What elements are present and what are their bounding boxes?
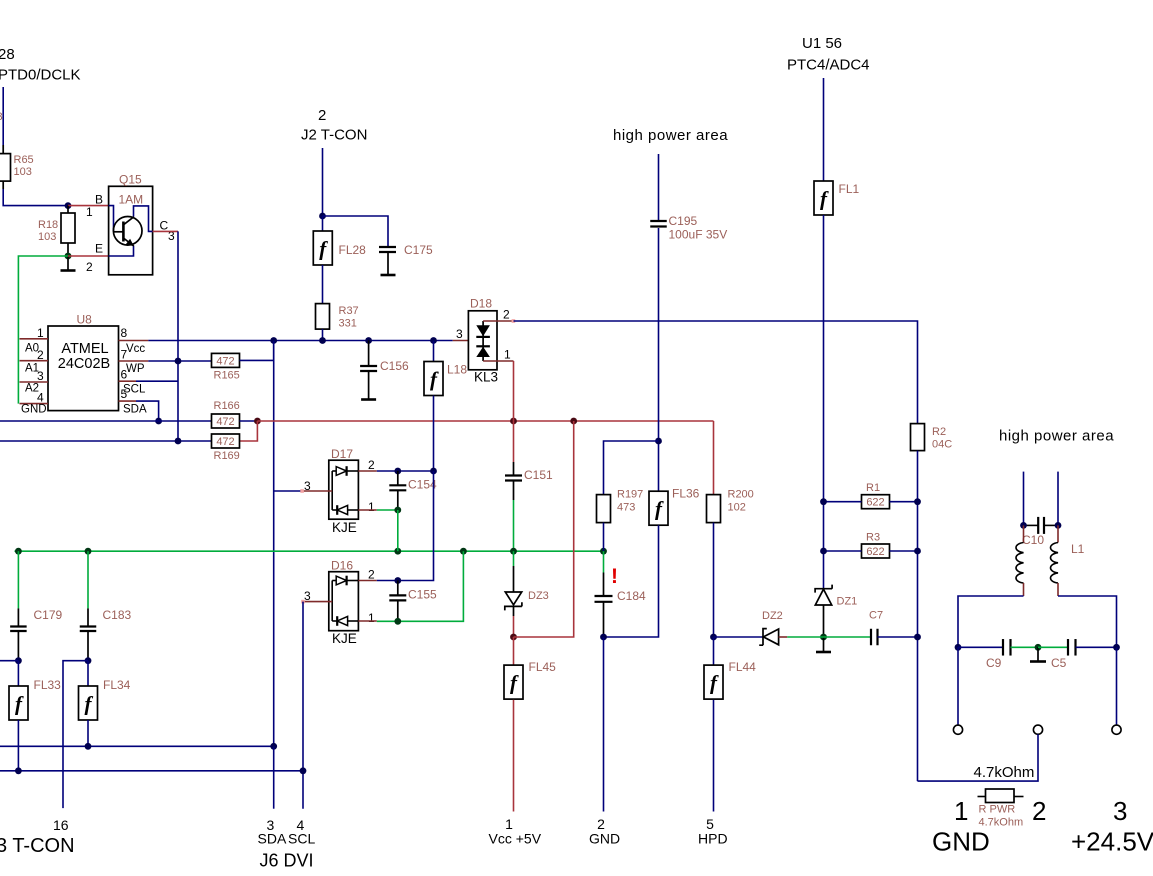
junction node E [65, 253, 72, 260]
wire J2 node to C175 [323, 216, 389, 247]
wire bottom bus lower (to J6 SCL) [0, 770, 303, 772]
wire R200 to HPD node [713, 523, 715, 637]
svg-text:2: 2 [318, 107, 326, 124]
wire FL1 down to R1/R3/DZ1 [823, 215, 825, 589]
svg-text:1: 1 [368, 500, 375, 514]
ground below C175 [387, 252, 389, 275]
wire red link R166-R169 [240, 421, 258, 441]
svg-text:C10: C10 [1022, 533, 1044, 547]
junction R3 left [820, 548, 827, 555]
svg-text:FL45: FL45 [529, 660, 557, 674]
svg-text:GND: GND [589, 831, 620, 847]
lead D18 pin 2 [483, 320, 513, 322]
svg-text:2: 2 [503, 308, 510, 322]
wire R65 to node B [3, 189, 68, 206]
U8 pin 7 WP [119, 360, 149, 362]
wire C5 to right node [1076, 646, 1117, 648]
wire D16 pin2 net riser to D17 net [377, 471, 434, 581]
zener diode DZ3 [513, 551, 515, 566]
wire SDA pin5 elbow [136, 401, 159, 421]
junction red node (Vcc +5V net) [510, 634, 517, 641]
wire C9 to center ground node [1011, 646, 1039, 648]
wire DZ3 to red node [513, 606, 515, 616]
capacitor C5 [1067, 639, 1069, 656]
svg-text:3 T-CON: 3 T-CON [0, 835, 75, 857]
svg-text:R18: R18 [38, 219, 58, 231]
capacitor C7 [870, 629, 872, 646]
junction green bus / C183 [85, 548, 92, 555]
wire R165 to Vcc bus [240, 341, 274, 361]
diode D18 (KL3 dual suppressor) [468, 311, 497, 370]
wire R1 left [824, 501, 862, 503]
wire PTC4 down to FL1 [823, 78, 825, 181]
junction FL34/bus [85, 743, 92, 750]
inductor L1 (right coil) [1057, 525, 1059, 542]
svg-text:103: 103 [38, 231, 56, 243]
svg-text:5: 5 [121, 387, 128, 401]
svg-text:C154: C154 [408, 478, 437, 492]
filter FL28 [322, 216, 324, 231]
svg-text:2: 2 [368, 568, 375, 582]
svg-text:1: 1 [368, 611, 375, 625]
wire green riser to bus [397, 510, 399, 551]
wire right node to terminal 3 [1116, 647, 1118, 725]
wire green E net to U8 address pins [18, 256, 68, 404]
svg-text:7: 7 [121, 348, 128, 362]
svg-text:1: 1 [37, 326, 44, 340]
svg-text:C9: C9 [986, 656, 1002, 670]
capacitor C154 [397, 471, 399, 485]
junction bus/SCL riser [300, 767, 307, 774]
junction C155 top [394, 577, 401, 584]
capacitor C9 [1002, 639, 1004, 656]
junction C10 right [1055, 522, 1062, 529]
junction J2 node [319, 213, 326, 220]
U8 pin 8 Vcc [119, 340, 149, 342]
junction bus/SDA riser [270, 743, 277, 750]
junction DZ1/DZ2/C7 green node [820, 634, 827, 641]
wire L18 down to D17 pin2 net [433, 396, 435, 472]
resistor R169 [212, 434, 240, 448]
filter L18 [433, 341, 435, 362]
svg-text:Vcc: Vcc [126, 343, 145, 355]
wire D16 pin1 green to bus branch [377, 551, 464, 621]
wire to C9 [958, 646, 1003, 648]
svg-text:J2 T-CON: J2 T-CON [301, 127, 367, 144]
svg-text:16: 16 [53, 817, 69, 833]
filter FL44 [713, 637, 715, 665]
junction GND node [600, 634, 607, 641]
svg-text:DZ2: DZ2 [762, 610, 783, 622]
wire R3 right [890, 550, 918, 552]
terminal circle 2 [1033, 725, 1042, 734]
lead D16 pin 2 [358, 580, 376, 582]
svg-text:103: 103 [14, 166, 32, 178]
capacitor C151 [513, 421, 515, 462]
lead D17 pin 1 [358, 509, 376, 511]
svg-text:C195: C195 [669, 214, 698, 228]
filter FL34 [87, 661, 89, 686]
svg-text:GND: GND [932, 827, 990, 857]
junction C156/Vcc [365, 337, 372, 344]
svg-text:2: 2 [37, 348, 44, 362]
svg-text:L1: L1 [1071, 542, 1085, 556]
svg-text:472: 472 [216, 416, 234, 428]
capacitor C195 [658, 154, 660, 221]
svg-text:C155: C155 [408, 588, 437, 602]
junction R3 right [914, 548, 921, 555]
wire R1 right [890, 501, 918, 503]
lead D16 pin 3 [303, 601, 332, 603]
svg-text:C7: C7 [869, 610, 883, 622]
svg-text:R PWR: R PWR [979, 804, 1016, 816]
junction C151 top [510, 418, 517, 425]
wire D17 pin1 green [377, 509, 398, 511]
svg-text:FL28: FL28 [339, 243, 367, 257]
wire Vcc riser elbow to D17 pin3 [274, 490, 302, 492]
svg-text:U1 56: U1 56 [802, 35, 842, 52]
svg-text:E: E [95, 242, 103, 256]
wire C151 bottom to green bus [513, 481, 515, 501]
svg-text:FL36: FL36 [672, 487, 700, 501]
svg-text:2: 2 [368, 458, 375, 472]
svg-text:C151: C151 [524, 468, 553, 482]
junction L18/D16 riser [430, 468, 437, 475]
wire/lead Vcc to D18 pin 3 [453, 340, 483, 342]
wire R166 right [240, 420, 258, 422]
filter FL45 [513, 637, 515, 665]
svg-text:FL34: FL34 [103, 678, 131, 692]
svg-text:1AM: 1AM [119, 193, 144, 207]
wire FL44 to HPD pin [713, 700, 715, 812]
Q15 internal wiring [109, 206, 114, 232]
resistor R165 [212, 353, 240, 367]
junction C9 left node [955, 644, 962, 651]
U8 pin 5 SDA [119, 400, 137, 402]
ground below DZ1 node [823, 637, 825, 652]
svg-text:4.7kOhm: 4.7kOhm [974, 764, 1035, 781]
U8 pin 4 GND [20, 403, 49, 405]
wire R37 to Vcc bus [322, 329, 324, 340]
junction node B [65, 202, 72, 209]
wire branch to R197 [604, 441, 659, 495]
wire R2 down [917, 451, 919, 781]
svg-text:J6 DVI: J6 DVI [260, 851, 314, 871]
svg-text:R3: R3 [866, 532, 880, 544]
svg-text:472: 472 [216, 356, 234, 368]
svg-text:C175: C175 [404, 243, 433, 257]
junction green bus / C151 DZ3 [510, 548, 517, 555]
capacitor C179 [17, 551, 19, 608]
wire D18 pin2 to R2 [514, 321, 918, 424]
junction L18/Vcc [430, 337, 437, 344]
svg-text:R37: R37 [339, 305, 359, 317]
svg-text:8: 8 [121, 326, 128, 340]
wire left node to terminal 1 [957, 647, 959, 725]
svg-text:B: B [95, 193, 103, 207]
junction green bus / R197 C184 [600, 548, 607, 555]
terminal circle 3 (+24.5V) [1112, 725, 1121, 734]
svg-text:!: ! [611, 565, 618, 588]
svg-text:04C: 04C [932, 439, 952, 451]
svg-text:3: 3 [0, 111, 3, 123]
junction lower net [175, 438, 182, 445]
lead D18 pin 1 [483, 360, 513, 362]
wire WP pin7 to R165 [148, 360, 211, 362]
svg-text:high power area: high power area [999, 428, 1114, 445]
wire collector net vertical to WP and SCL nets [177, 231, 179, 441]
svg-text:PTC4/ADC4: PTC4/ADC4 [787, 57, 870, 74]
svg-text:+24.5V: +24.5V [1071, 827, 1153, 857]
wire GND node to connector pin 2 [603, 637, 605, 812]
resistor R65 [2, 145, 4, 154]
junction green bus / D16 branch [460, 548, 467, 555]
svg-text:KL3: KL3 [474, 370, 498, 385]
diode D17 (KJE dual) [329, 460, 359, 519]
svg-text:6: 6 [121, 368, 128, 382]
resistor R2 [911, 424, 925, 451]
resistor R166 [212, 414, 240, 428]
capacitor C183 [87, 551, 89, 608]
IC U8 ATMEL 24C02B [48, 326, 119, 411]
svg-text:473: 473 [617, 502, 635, 514]
svg-text:SDA: SDA [258, 831, 287, 847]
svg-text:DZ1: DZ1 [837, 596, 858, 608]
resistor R PWR [978, 796, 986, 798]
wire bottom bus upper (to J6 SDA) [0, 745, 274, 747]
lead D16 pin 1 [358, 620, 376, 622]
resistor R18 [67, 206, 69, 213]
svg-text:3: 3 [37, 369, 44, 383]
svg-text:KJE: KJE [332, 631, 357, 646]
svg-text:R200: R200 [728, 489, 754, 501]
junction C195/R197/FL36 [655, 438, 662, 445]
svg-text:100uF 35V: 100uF 35V [669, 228, 728, 242]
wire terminal 2 down and around to R2 net [918, 734, 1039, 781]
capacitor C155 [397, 581, 399, 596]
transistor Q15 [109, 186, 153, 274]
svg-text:C156: C156 [380, 359, 409, 373]
wire red link from SDA net [514, 421, 574, 637]
svg-text:C183: C183 [103, 608, 132, 622]
wire L1 to C5 node [1058, 596, 1117, 647]
wire FL45 to Vcc +5V pin [513, 700, 515, 812]
wire C183 node to T-CON pin 16 [63, 661, 88, 808]
resistor R37 [322, 265, 324, 304]
filter FL36 [649, 491, 668, 525]
svg-text:DZ3: DZ3 [528, 590, 549, 602]
svg-text:3: 3 [456, 327, 463, 341]
svg-text:FL1: FL1 [839, 182, 860, 196]
svg-text:622: 622 [866, 546, 884, 558]
capacitor C184 [603, 551, 605, 572]
svg-text:Q15: Q15 [119, 173, 142, 187]
wire red SDA net horizontal [257, 420, 713, 422]
svg-text:L18: L18 [447, 363, 467, 377]
svg-text:28: 28 [0, 46, 15, 63]
wire Q15 collector (red) [153, 230, 178, 232]
wire C195 net down [658, 228, 660, 491]
svg-text:R65: R65 [14, 154, 34, 166]
wire end marker pin2 [512, 319, 516, 323]
junction Vcc bus riser [270, 337, 277, 344]
wire green node to C7 [824, 636, 872, 638]
wire PTD0/DCLK vertical [2, 87, 4, 145]
junction red SDA net [254, 418, 261, 425]
svg-text:SDA: SDA [123, 404, 147, 416]
junction HPD node [710, 634, 717, 641]
svg-text:FL44: FL44 [729, 660, 757, 674]
svg-text:R165: R165 [214, 370, 240, 382]
resistor R200 [707, 495, 721, 523]
svg-text:472: 472 [216, 436, 234, 448]
junction WP node [175, 358, 182, 365]
svg-text:FL33: FL33 [34, 678, 62, 692]
junction C5 right node [1113, 644, 1120, 651]
wire green bus horizontal [15, 550, 604, 552]
capacitor C10 [1024, 524, 1039, 526]
wire DZ2 to green node [779, 636, 788, 638]
U8 pin 2 A1 [20, 360, 49, 362]
svg-text:U8: U8 [77, 313, 93, 327]
junction R1 right [914, 498, 921, 505]
wire end marker D17 pin3 [300, 489, 304, 493]
filter FL1 [814, 181, 833, 215]
svg-text:high power area: high power area [613, 127, 728, 144]
wire HPD node to DZ2 [714, 636, 764, 638]
svg-text:ATMEL: ATMEL [61, 341, 108, 357]
U8 pin 3 A2 [20, 381, 49, 383]
svg-text:2: 2 [1032, 796, 1046, 826]
svg-text:D18: D18 [470, 297, 492, 311]
svg-text:3: 3 [1113, 796, 1127, 826]
svg-text:R166: R166 [214, 400, 240, 412]
svg-text:102: 102 [728, 502, 746, 514]
svg-text:C184: C184 [617, 589, 646, 603]
svg-text:C5: C5 [1051, 656, 1067, 670]
ground at center node [1037, 647, 1039, 661]
filter FL33 [17, 661, 19, 686]
junction C155 bottom / green [394, 618, 401, 625]
diode D16 (KJE dual) [329, 572, 359, 631]
junction green bus / D17 pin1 riser [394, 548, 401, 555]
wire node E to Q15 emitter (red) [68, 255, 109, 257]
wire J2 T-CON down [322, 148, 324, 216]
U8 pin 6 SCL [119, 380, 137, 382]
junction R1 left [820, 498, 827, 505]
U8 pin 1 A0 [20, 338, 49, 340]
junction C10 left [1020, 522, 1027, 529]
resistor R197 [597, 495, 611, 523]
wire left dangle down to C10 [1023, 472, 1025, 526]
junction C179 bottom [15, 657, 22, 664]
svg-text:WP: WP [126, 363, 145, 375]
wire red net to R200 [713, 421, 715, 495]
svg-text:1: 1 [504, 348, 511, 362]
wire R3 left [824, 550, 862, 552]
junction R37/Vcc [319, 337, 326, 344]
lead D17 pin 3 [302, 490, 332, 492]
wire C7 to R2 net [878, 636, 918, 638]
wire FL36 down to GND node [604, 525, 659, 637]
wire center node to C5 [1038, 646, 1068, 648]
Q15 transistor symbol [113, 217, 142, 246]
svg-text:D17: D17 [331, 447, 353, 461]
svg-text:R1: R1 [866, 482, 880, 494]
wire stub left from C179 node [0, 660, 18, 662]
inductor left coil [1023, 525, 1025, 542]
junction green bus / C179 [15, 548, 22, 555]
wire SCL pin6 [136, 380, 178, 382]
svg-text:R2: R2 [932, 426, 946, 438]
junction center ground node [1035, 644, 1042, 651]
resistor R1 [862, 495, 890, 509]
junction D17 pin1 / C154 [394, 507, 401, 514]
junction C7/R2 [914, 634, 921, 641]
svg-text:R197: R197 [617, 489, 643, 501]
capacitor C175 [379, 246, 396, 248]
capacitor C156 [368, 341, 370, 367]
svg-text:622: 622 [866, 497, 884, 509]
lead D17 pin 2 [358, 470, 376, 472]
svg-text:1: 1 [86, 205, 93, 219]
wire SDA riser to J6 pin3 [273, 746, 275, 808]
ground below R18 [67, 256, 69, 271]
svg-text:PTD0/DCLK: PTD0/DCLK [0, 67, 81, 84]
junction C183 bottom [85, 657, 92, 664]
svg-text:2: 2 [86, 260, 93, 274]
wire D17 pin2 net [377, 470, 434, 472]
svg-text:Vcc +5V: Vcc +5V [489, 831, 542, 847]
svg-text:GND: GND [21, 404, 47, 416]
svg-text:SCL: SCL [288, 831, 315, 847]
wire left coil to C9 node [958, 596, 1024, 647]
svg-text:24C02B: 24C02B [58, 356, 110, 372]
resistor R3 [862, 544, 890, 558]
svg-text:HPD: HPD [698, 831, 728, 847]
wire FL33 to lower bus [17, 720, 19, 771]
svg-text:C179: C179 [34, 608, 63, 622]
wire lower SCL horizontal net [0, 440, 212, 442]
junction C154 top [394, 468, 401, 475]
wire R197 to green bus [603, 523, 605, 552]
wire end marker D16 pin3 [301, 600, 305, 604]
zener diode DZ1 [815, 585, 832, 593]
wire DZ1 to green node [823, 605, 825, 637]
junction FL33/bus [15, 767, 22, 774]
svg-text:331: 331 [339, 318, 357, 330]
wire D16 pin3 down to J6 SCL [302, 602, 304, 809]
wire right dangle down to C10 [1057, 472, 1059, 526]
wire Vcc riser down to D17 pin3 and SDA connector [273, 341, 275, 747]
terminal circle 1 (GND) [953, 725, 962, 734]
wire SDA horizontal net [0, 420, 212, 422]
svg-text:4: 4 [37, 391, 44, 405]
zener diode DZ2 [759, 629, 767, 646]
junction DZ3 feed [570, 418, 577, 425]
svg-text:KJE: KJE [332, 520, 357, 535]
wire Vcc bus from pin 8 to D18 [148, 340, 452, 342]
wire node B to Q15 base (red) [68, 205, 109, 207]
wire FL34 to upper bus [87, 720, 89, 746]
svg-text:R169: R169 [214, 450, 240, 462]
junction SDA node [155, 418, 162, 425]
wire D18 pin1 down to red net [513, 361, 515, 421]
svg-text:D16: D16 [331, 559, 353, 573]
ground below C156 [368, 371, 370, 400]
svg-text:1: 1 [954, 796, 968, 826]
